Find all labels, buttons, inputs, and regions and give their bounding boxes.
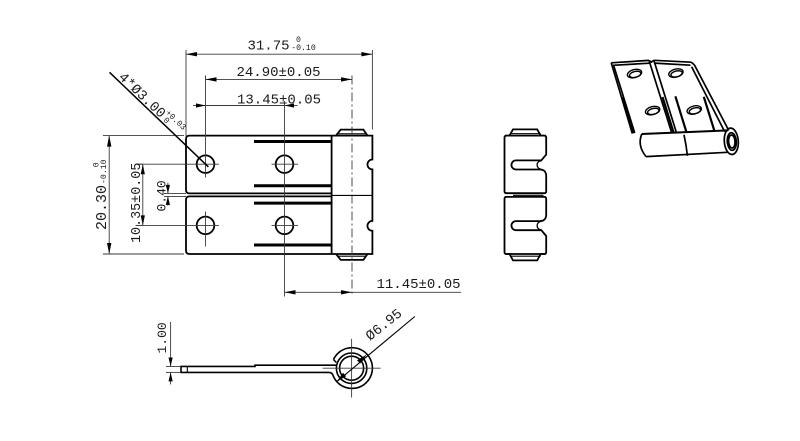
side view: body top and bottom edges under caps <box>505 136 546 254</box>
svg-text:-0.10: -0.10 <box>291 44 316 53</box>
dimension 0.40: arrowheads (outside) <box>166 185 170 205</box>
dimension 11.45: arrowheads <box>285 290 353 294</box>
dimension 20.30: arrowheads <box>107 136 111 254</box>
front view: barrel top cap <box>336 130 368 136</box>
front view: hole centerlines / crosshairs <box>136 76 299 297</box>
dimension 13.45: value text <box>237 92 321 108</box>
dimension 24.90: arrowheads <box>206 77 353 81</box>
svg-text:0.40: 0.40 <box>155 180 170 211</box>
dimension 24.90: value text <box>237 65 321 81</box>
bottom view: barrel bore circle <box>340 356 364 380</box>
dimension 31.75: value text with tolerance stack <box>248 36 316 54</box>
isometric view: rib lines on plates <box>623 96 715 133</box>
isometric view: countersunk holes (ellipse pairs) <box>626 67 702 116</box>
side view: lower half body with slot <box>505 197 547 261</box>
dimension 1.00 (leaf thickness): extension and dimension lines <box>166 322 180 384</box>
bottom view: leaf curl into barrel <box>329 372 332 374</box>
svg-text:20.30: 20.30 <box>94 185 111 230</box>
dimension 10.35: arrowheads <box>141 164 145 225</box>
front view: hinge leaf 1 (top leaf) outline <box>186 136 332 194</box>
svg-text:24.90±0.05: 24.90±0.05 <box>237 65 321 81</box>
dimension 0.40 (leaf gap): extension and dimension lines <box>164 183 186 206</box>
svg-text:10.35±0.05: 10.35±0.05 <box>130 163 145 243</box>
dimension 10.35±0.05 (vertical): extension and dimension lines <box>136 164 143 225</box>
dimension 1.00: rotated value text <box>155 322 170 353</box>
front view: leaf/barrel junction line <box>331 136 333 254</box>
front view: barrel centerline (dash-dot) <box>351 76 353 297</box>
isometric view: plate top edges with split notch <box>611 60 691 65</box>
dimension 13.45±0.05: dimension line with outside arrows <box>193 105 298 107</box>
isometric view: right plate edge (double line) <box>691 62 729 132</box>
bottom view: leaf bar (1.00 thick) <box>181 365 337 372</box>
svg-text:1.00: 1.00 <box>155 322 170 353</box>
bottom view: barrel middle circle <box>336 353 366 383</box>
svg-text:11.45±0.05: 11.45±0.05 <box>377 277 461 293</box>
dimension 11.45±0.05: dimension line <box>285 291 462 293</box>
dimension 20.30: rotated value text with tolerance stack <box>93 159 112 230</box>
leader line for hole callout 4*D3.00 <box>110 72 209 167</box>
hole callout text 4*D3.00 +0.03/0 (rotated along leader) <box>115 70 188 133</box>
diameter D6.95: arrowheads on circle <box>336 355 366 382</box>
side view: mid pin line <box>513 194 544 196</box>
isometric view: plate separation lines <box>649 60 677 133</box>
dimension 1.00: arrowheads (outside) <box>169 358 173 382</box>
svg-text:-0.10: -0.10 <box>100 159 109 184</box>
isometric view: left plate edge (double line) <box>611 63 635 134</box>
svg-text:13.45±0.05: 13.45±0.05 <box>237 92 321 108</box>
front view: four mounting holes D3.00 <box>197 155 294 234</box>
front view: stiffening ribs (thick lines) <box>254 142 332 246</box>
diameter leader line D6.95 <box>336 317 414 383</box>
side view: cap inner lines <box>512 134 541 257</box>
dimension 11.45: value text <box>377 277 461 293</box>
front view: barrel (knuckle) outline with pin-retention notches <box>332 136 373 254</box>
front view: barrel mid split line <box>332 194 373 196</box>
side view: upper half body with slot <box>505 129 547 193</box>
dimension 0.40: rotated value text <box>155 180 170 211</box>
dimension 10.35: rotated value text <box>130 163 145 243</box>
front view: barrel bottom cap <box>336 254 368 260</box>
bottom view: barrel outer circle (gap at leaf joint) <box>333 348 373 389</box>
dimension 13.45: arrowheads <box>196 103 294 107</box>
dimension 24.90±0.05: dimension line <box>206 76 353 80</box>
diameter D6.95: rotated value text <box>363 306 406 345</box>
isometric view: barrel end face ellipses <box>723 128 739 155</box>
isometric view: barrel cylinder <box>640 130 728 156</box>
side view: slot neck arcs <box>537 161 542 230</box>
dimension 31.75 0/-0.10: extension and dimension lines <box>186 50 372 137</box>
dimension 31.75: arrowheads <box>186 52 372 56</box>
dimension 20.30 0/-0.10 (vertical): extension and dimension lines <box>103 136 184 254</box>
bottom view: circle crosshair centerlines <box>323 339 381 398</box>
front view: hinge leaf 2 (bottom leaf) outline <box>186 196 332 254</box>
svg-text:31.75: 31.75 <box>248 38 290 54</box>
